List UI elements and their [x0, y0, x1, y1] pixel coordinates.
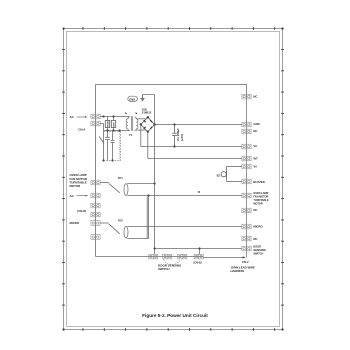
- wire lower primary rail: [104, 130, 130, 132]
- wire top rail: [96, 85, 247, 95]
- svg-text:SENSING: SENSING: [253, 248, 266, 252]
- node RY1 / center bus: [154, 182, 156, 184]
- svg-text:WT: WT: [253, 157, 258, 161]
- wire relay drop: [148, 196, 150, 239]
- svg-text:(+5V): (+5V): [180, 134, 184, 141]
- fuse F1: [107, 117, 109, 121]
- frame corner marks: [63, 28, 284, 331]
- buzzer BZ: [221, 167, 242, 182]
- switch box 1: [163, 254, 168, 259]
- svg-text:NC: NC: [253, 208, 257, 212]
- wire relay RY1 top: [127, 183, 154, 185]
- pin CN-D 1: [91, 203, 96, 208]
- switch box 2: [178, 254, 183, 259]
- capacitor C inside filter: [107, 132, 109, 138]
- svg-text:MOTOR: MOTOR: [70, 184, 82, 188]
- node filter bottom right: [111, 159, 113, 161]
- node AC line1 / filter tap: [102, 115, 104, 117]
- node AC line1 / varistor tap: [112, 115, 114, 117]
- pin oven lamp out: [91, 180, 96, 185]
- wire left bus: [95, 85, 97, 257]
- node filter bottom left: [102, 159, 104, 161]
- arrowhead CN-2: [243, 256, 246, 258]
- bridge diode marks: [144, 120, 146, 122]
- pin MICRO out: [91, 221, 96, 226]
- right pin labels: [253, 94, 268, 255]
- border frame inner: [67, 32, 280, 327]
- transformer T1 primary: [126, 117, 130, 131]
- varistor ZNR: [113, 117, 115, 121]
- svg-text:(CN-B): (CN-B): [193, 261, 201, 265]
- svg-text:HARNESS: HARNESS: [231, 269, 245, 273]
- svg-text:BUZZER: BUZZER: [253, 180, 264, 184]
- svg-text:GND: GND: [129, 97, 135, 101]
- svg-text:FUSE: FUSE: [107, 121, 109, 127]
- svg-text:(CN-D): (CN-D): [77, 209, 86, 213]
- ground chassis symbol: [141, 95, 145, 101]
- door sensing switch chain: [149, 254, 203, 264]
- pin GND: [242, 122, 247, 127]
- transformer tap labels: [125, 113, 127, 114]
- svg-text:MICRO: MICRO: [70, 221, 80, 225]
- door switch linkage: [164, 259, 181, 264]
- wire WT rail: [148, 158, 242, 160]
- svg-text:RY2: RY2: [118, 219, 123, 222]
- node door rail / CN-B: [198, 247, 200, 249]
- node door rail / center bus: [154, 247, 156, 249]
- dotted vertical in filter: [119, 132, 121, 161]
- pin NC 4: [242, 236, 247, 241]
- wire door top rail: [155, 248, 242, 250]
- relay RY1: [100, 183, 128, 196]
- pin door pair B: [194, 254, 199, 259]
- pin VA 1: [242, 144, 247, 149]
- node lower rail / filter col: [118, 129, 120, 131]
- pin NC 2: [242, 129, 247, 134]
- pin AC L2: [91, 121, 96, 126]
- transformer T1 core: [131, 116, 133, 131]
- svg-text:SWITCH: SWITCH: [158, 267, 169, 271]
- svg-text:GND: GND: [253, 122, 259, 126]
- svg-text:VA: VA: [253, 164, 257, 168]
- wire relay drop pair: [146, 197, 148, 239]
- svg-text:CN-A: CN-A: [78, 127, 85, 131]
- frame tick marks: [62, 27, 284, 331]
- pin AC L1: [91, 114, 96, 119]
- wire AC line 1: [100, 116, 130, 118]
- wire relay RY2 bottom: [127, 238, 148, 240]
- wire CN-2 arrow: [203, 257, 244, 259]
- wire GND rail: [155, 124, 242, 126]
- pin NC 3: [242, 208, 247, 213]
- pin WT: [242, 156, 247, 161]
- right connector pins: [242, 94, 251, 251]
- svg-text:NC: NC: [253, 94, 257, 98]
- resistor inside filter: [112, 132, 114, 141]
- switch blade at filter: [99, 137, 104, 144]
- svg-text:T1: T1: [129, 133, 133, 137]
- line filter dashed box: [104, 132, 121, 161]
- pin OVEN LAMP: [242, 193, 247, 198]
- pin BUZZER: [242, 179, 247, 184]
- node (GND) oval: [128, 96, 138, 101]
- svg-text:SWITCH: SWITCH: [253, 252, 263, 255]
- wire VA rail: [141, 146, 242, 148]
- pin door pair A: [149, 254, 154, 259]
- svg-text:S1NB12: S1NB12: [142, 111, 152, 114]
- svg-text:MOTOR: MOTOR: [253, 202, 262, 205]
- pin RY2 out: [91, 235, 96, 240]
- left labels: [70, 115, 89, 225]
- wire center bus: [154, 95, 156, 255]
- node lower rail / fuse leg: [106, 129, 108, 131]
- svg-text:BZ: BZ: [217, 173, 221, 177]
- node C1 top: [173, 123, 175, 125]
- pin VA 2: [242, 164, 247, 169]
- svg-text:NC: NC: [253, 129, 257, 133]
- svg-text:RY1: RY1: [118, 177, 123, 180]
- wire bridge bottom output: [147, 132, 149, 159]
- wire AC line 2 stub: [100, 123, 103, 125]
- wire secondary bottom to bridge: [136, 129, 146, 131]
- wire bridge left output: [140, 125, 142, 147]
- svg-text:CN-2: CN-2: [242, 260, 249, 264]
- node GND rail / center bus: [154, 123, 156, 125]
- transformer T1 secondary: [135, 117, 139, 131]
- wire oven lamp rail: [127, 195, 241, 197]
- wire filter drop: [103, 124, 105, 161]
- pin AC L3: [91, 193, 96, 198]
- svg-text:ZNR: ZNR: [113, 122, 115, 127]
- relay RY2: [100, 223, 128, 238]
- svg-text:NC: NC: [253, 237, 257, 241]
- svg-text:MICRO: MICRO: [253, 225, 263, 229]
- pin DOOR: [242, 246, 247, 251]
- connector CN-2 body line: [246, 94, 248, 257]
- node C1 bottom: [173, 145, 175, 147]
- left connector pins CN-A / CN-D: [91, 114, 100, 239]
- capacitor C1: [172, 125, 177, 147]
- node oven rail / relay drop: [147, 194, 149, 196]
- node lower rail / varistor leg: [112, 129, 114, 131]
- wire micro rail: [127, 226, 241, 228]
- wire secondary top to bridge: [136, 118, 146, 120]
- wire door bottom rail: [96, 256, 204, 258]
- wire door chain up: [199, 249, 201, 255]
- wire ground to bus: [143, 94, 155, 96]
- diode bridge D1B S1NB12: [141, 117, 155, 131]
- pin NC 1: [242, 94, 247, 99]
- border frame outer: [64, 29, 283, 330]
- svg-text:VA: VA: [253, 144, 257, 148]
- svg-text:Figure 5-2. Power Unit Circuit: Figure 5-2. Power Unit Circuit: [142, 313, 208, 318]
- pin CN-D 2: [91, 212, 96, 217]
- pin MICRO: [242, 224, 247, 229]
